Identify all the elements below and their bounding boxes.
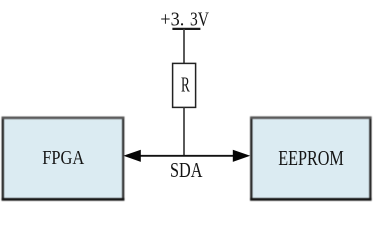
svg-text:FPGA: FPGA [42,147,84,169]
svg-text:+3.: +3. [160,9,184,31]
power rail bar +3.3V [172,28,200,30]
svg-text:3V: 3V [190,9,209,31]
resistor R1 body [173,63,196,107]
svg-text:R: R [181,72,190,96]
svg-text:EEPROM: EEPROM [278,147,344,170]
wire SDA bus (horizontal) [139,155,235,157]
arrowhead into FPGA (left) [123,150,140,162]
wire from +3.3V rail to resistor top [183,29,185,64]
wire from resistor bottom to SDA line junction [183,107,185,155]
block FPGA [2,117,125,201]
svg-text:SDA: SDA [170,158,203,182]
arrowhead into EEPROM (right) [233,150,250,162]
block EEPROM [250,117,372,201]
net +3.3V label [160,9,209,31]
